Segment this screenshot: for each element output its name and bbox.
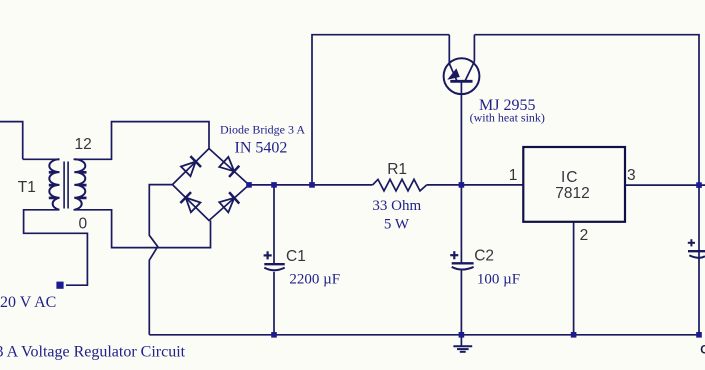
svg-text:3 A Voltage Regulator Circuit: 3 A Voltage Regulator Circuit [0, 344, 186, 361]
svg-text:C2: C2 [474, 248, 494, 265]
svg-text:5 W: 5 W [384, 216, 410, 232]
svg-text:R1: R1 [387, 161, 407, 178]
svg-text:G: G [700, 345, 705, 357]
svg-text:(with heat sink): (with heat sink) [470, 110, 545, 124]
svg-text:7812: 7812 [555, 185, 589, 202]
svg-text:1: 1 [509, 167, 518, 184]
svg-text:100 µF: 100 µF [477, 271, 520, 287]
svg-text:IC: IC [561, 169, 579, 186]
svg-text:IN 5402: IN 5402 [235, 140, 288, 157]
svg-text:Diode Bridge 3 A: Diode Bridge 3 A [220, 123, 305, 137]
svg-text:12: 12 [75, 136, 92, 153]
svg-text:33 Ohm: 33 Ohm [372, 198, 421, 214]
svg-text:T1: T1 [18, 179, 36, 196]
svg-text:2200 µF: 2200 µF [289, 271, 340, 287]
svg-text:3: 3 [627, 167, 636, 184]
svg-text:0: 0 [79, 216, 88, 233]
svg-text:20 V AC: 20 V AC [0, 294, 56, 311]
svg-text:C1: C1 [286, 248, 306, 265]
svg-text:2: 2 [580, 227, 589, 244]
